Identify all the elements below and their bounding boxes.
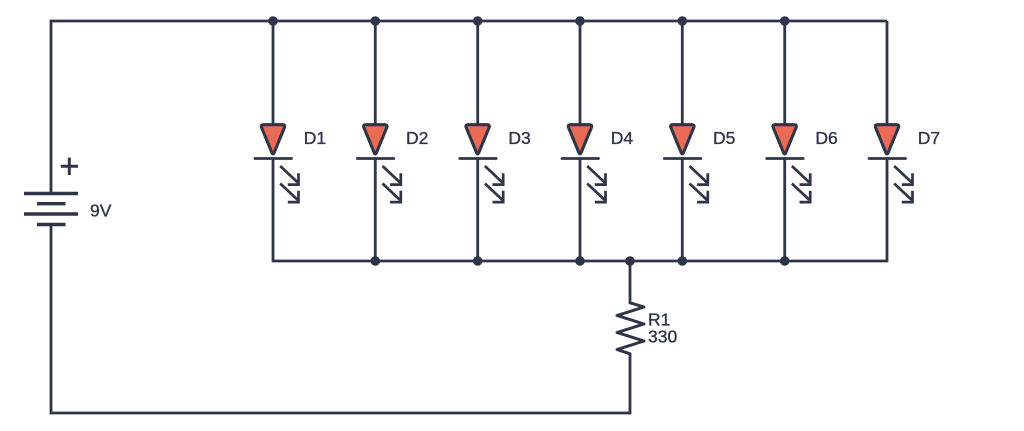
LED D2 cathode bar <box>357 157 394 160</box>
LED D3 <box>460 21 531 262</box>
svg-text:D2: D2 <box>406 128 428 148</box>
LED D1 triangle (anode) <box>261 125 284 154</box>
junction node cathode bus at D2 <box>371 256 381 266</box>
LED D1 emission arrows <box>280 166 298 202</box>
LED D7 emission arrows <box>894 166 912 202</box>
LED D4 <box>562 21 633 262</box>
wire LED cathode bus <box>273 260 887 263</box>
wire D5 cathode <box>681 159 684 263</box>
junction node top rail at D1 <box>268 16 278 26</box>
wire D2 cathode <box>374 159 377 263</box>
LED D2 emission arrows <box>383 166 401 202</box>
resistor R1 zigzag body <box>617 303 644 354</box>
wire D7 anode <box>886 21 889 127</box>
LED D1 cathode bar <box>255 157 292 160</box>
wire D1 anode <box>272 21 275 127</box>
wire top rail (battery + to LED anodes) <box>51 20 887 23</box>
wire D4 anode <box>579 21 582 127</box>
resistor R1 330 <box>617 261 677 414</box>
LED D2 triangle (anode) <box>364 125 387 154</box>
junction node top rail at D4 <box>575 16 585 26</box>
junction node cathode bus at D6 <box>780 256 790 266</box>
wire D3 anode <box>476 21 479 127</box>
junction node top rail at D3 <box>473 16 483 26</box>
LED D5 triangle (anode) <box>671 125 694 154</box>
svg-text:9V: 9V <box>90 201 112 221</box>
LED D5 cathode bar <box>664 157 701 160</box>
wire D4 cathode <box>579 159 582 263</box>
junction node top rail at D5 <box>678 16 688 26</box>
junction node cathode bus at D3 <box>473 256 483 266</box>
svg-text:330: 330 <box>648 327 677 347</box>
junction node top rail at D6 <box>780 16 790 26</box>
wire D5 anode <box>681 21 684 127</box>
LED D7 cathode bar <box>869 157 906 160</box>
svg-text:D5: D5 <box>713 128 735 148</box>
wire D1 cathode <box>272 159 275 263</box>
wire bottom rail (battery - to resistor) <box>51 412 630 415</box>
wire D6 anode <box>783 21 786 127</box>
LED D6 <box>767 21 838 262</box>
LED D5 emission arrows <box>690 166 708 202</box>
LED D6 emission arrows <box>792 166 810 202</box>
junction node cathode bus at resistor tap <box>625 256 635 266</box>
wire resistor bottom lead <box>629 354 632 415</box>
LED D3 triangle (anode) <box>466 125 489 154</box>
battery BT1 9V <box>24 194 78 225</box>
LED D7 <box>869 21 940 262</box>
battery plus sign <box>61 158 78 175</box>
svg-text:D7: D7 <box>918 128 940 148</box>
LED D4 cathode bar <box>562 157 599 160</box>
wire left from top rail down to battery + <box>50 20 53 194</box>
wire D6 cathode <box>783 159 786 263</box>
LED D3 emission arrows <box>485 166 503 202</box>
wire battery - down to bottom rail <box>50 225 53 415</box>
LED D5 <box>664 21 735 262</box>
junction node cathode bus at D5 <box>678 256 688 266</box>
LED D4 emission arrows <box>587 166 605 202</box>
LED D6 triangle (anode) <box>773 125 796 154</box>
junction node top rail at D2 <box>371 16 381 26</box>
LED D3 cathode bar <box>460 157 497 160</box>
svg-text:D3: D3 <box>508 128 530 148</box>
wire D7 cathode <box>886 159 889 263</box>
LED D6 cathode bar <box>767 157 804 160</box>
svg-text:D1: D1 <box>304 128 326 148</box>
LED D1 <box>255 21 326 262</box>
svg-text:D4: D4 <box>611 128 634 148</box>
junction node cathode bus at D4 <box>575 256 585 266</box>
svg-text:D6: D6 <box>815 128 837 148</box>
wire D2 anode <box>374 21 377 127</box>
LED D4 triangle (anode) <box>568 125 591 154</box>
LED D7 triangle (anode) <box>875 125 898 154</box>
wire resistor top lead <box>629 261 632 303</box>
wire D3 cathode <box>476 159 479 263</box>
LED D2 <box>357 21 428 262</box>
